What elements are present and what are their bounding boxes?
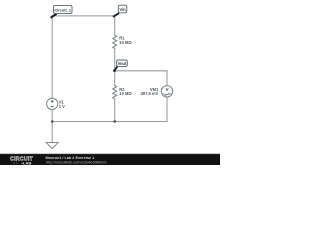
- svg-text:10 MΩ: 10 MΩ: [119, 91, 132, 96]
- svg-text:Circuit_1: Circuit_1: [54, 7, 71, 12]
- svg-text:497.5 mV: 497.5 mV: [141, 91, 159, 96]
- svg-text:Vin: Vin: [119, 7, 126, 12]
- svg-text:10 MΩ: 10 MΩ: [119, 40, 132, 45]
- svg-text:Vout: Vout: [118, 61, 127, 66]
- svg-text:V: V: [166, 87, 169, 92]
- svg-text:1 V: 1 V: [59, 104, 65, 109]
- svg-text:http://circuitlab.com/c2e4e69t: http://circuitlab.com/c2e4e69tb62v: [46, 159, 107, 164]
- svg-text:∿∿: ∿∿: [13, 161, 19, 165]
- svg-text:▪LAB: ▪LAB: [22, 160, 32, 165]
